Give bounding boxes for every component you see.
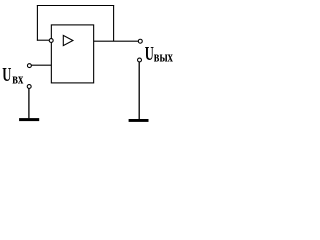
wire: feedback into inverting input node <box>37 39 50 41</box>
ground (output side) bar <box>129 119 149 122</box>
label Uвх (input voltage) <box>2 63 23 87</box>
svg-text:U: U <box>2 63 11 86</box>
svg-text:вх: вх <box>12 70 23 87</box>
wire: output <box>94 40 139 42</box>
wire: non-inverting input <box>31 64 51 66</box>
terminal: output lower circle <box>138 58 142 62</box>
op-amp body rectangle <box>51 25 93 83</box>
op-amp triangle symbol <box>63 35 73 45</box>
wire: feedback right vertical <box>113 5 115 41</box>
terminal: input upper circle <box>27 64 31 68</box>
svg-text:U: U <box>145 42 154 65</box>
ground (input side) bar <box>19 118 39 121</box>
terminal: output upper circle <box>138 39 142 43</box>
wire: feedback left vertical <box>36 5 38 41</box>
label Uвых (output voltage) <box>145 42 174 65</box>
terminal: input lower circle <box>27 85 31 89</box>
svg-text:вых: вых <box>154 48 174 65</box>
wire: input ground stub <box>28 88 30 118</box>
node: inverting input junction circle <box>49 39 53 43</box>
wire: output ground stub <box>138 62 140 119</box>
wire: feedback top horizontal <box>37 5 114 7</box>
